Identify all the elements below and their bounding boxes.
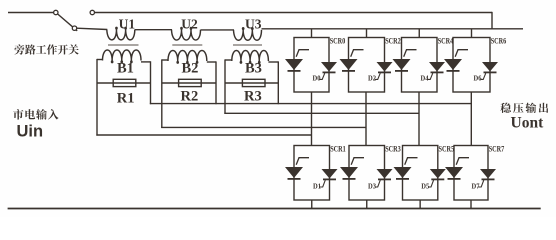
thyristor D7 device (480, 169, 496, 179)
module box SCR5 (403, 146, 438, 201)
svg-text:U1: U1 (119, 16, 136, 31)
thyristor SCR3 (340, 167, 358, 178)
wire: column 1 link (365, 92, 367, 146)
wire: B3 right lead down (277, 61, 279, 104)
winding B3 block (225, 59, 232, 61)
inductor B2 winding (168, 51, 207, 64)
svg-text:D4: D4 (421, 75, 429, 83)
switch pole terminal (54, 10, 58, 14)
wire: bottom stub SCR3 (366, 200, 368, 209)
wire: bus C (B2 left to col1) (161, 126, 366, 128)
svg-text:B1: B1 (117, 60, 134, 76)
resistor R1 (113, 79, 136, 86)
core bar T3 (233, 44, 262, 46)
thyristor SCR4 (393, 59, 411, 70)
thyristor D1 device (322, 169, 338, 179)
module box SCR1 (294, 146, 330, 201)
svg-text:D5: D5 (421, 182, 429, 190)
wire: R3 branch (225, 82, 278, 84)
wire: B1 right lead down (150, 61, 152, 104)
inductor B1 winding (103, 50, 142, 63)
wire: top stub SCR0 (311, 29, 313, 38)
wire: top stub SCR2 (366, 29, 368, 38)
wire: bottom stub SCR7 (470, 200, 472, 209)
core bar T1 (108, 44, 139, 46)
svg-text:D7: D7 (472, 182, 480, 190)
svg-text:R3: R3 (244, 89, 262, 105)
svg-text:U2: U2 (181, 16, 198, 31)
inductor B3 winding (232, 51, 269, 64)
thyristor SCR7 (445, 167, 463, 178)
thyristor SCR2 (340, 59, 358, 70)
wire: bus B (B3 left to col2) (224, 112, 419, 114)
module box SCR6 (453, 38, 490, 93)
wire: bus E (B1 left to col0) (96, 134, 311, 136)
wire: B1 left lead down (96, 59, 98, 136)
inductor U1 winding (107, 27, 135, 40)
wire: switch to U1 (77, 28, 108, 29)
wire: bypass drop to output bus (491, 12, 493, 29)
core bar T2 (172, 44, 202, 46)
module box SCR4 (402, 38, 438, 93)
module box SCR3 (349, 146, 385, 201)
module box SCR7 (454, 146, 488, 201)
svg-text:D0: D0 (313, 75, 321, 83)
svg-text:D3: D3 (368, 182, 376, 190)
svg-text:D6: D6 (474, 75, 482, 83)
inductor U3 winding (234, 28, 262, 41)
thyristor D0 device (321, 62, 337, 72)
wire: U1 to U2 (135, 29, 172, 31)
wire: R1 branch (97, 82, 151, 84)
thyristor SCR0 (285, 59, 303, 70)
thyristor D3 device (377, 169, 393, 179)
svg-text:SCR3: SCR3 (385, 145, 401, 154)
winding B2 block (162, 59, 168, 61)
inductor U2 winding (172, 28, 201, 41)
wire: U2 to U3 (201, 29, 235, 31)
wire: B2 right lead down (215, 61, 217, 104)
svg-text:R2: R2 (181, 89, 199, 105)
wire: bottom stub SCR1 (311, 200, 313, 209)
module box SCR0 (294, 38, 329, 93)
thyristor D2 device (377, 62, 393, 72)
wire: R2 branch (162, 82, 216, 84)
wire: B3 left lead down (224, 59, 226, 114)
switch blade (58, 14, 78, 31)
wire: top stub SCR6 (471, 29, 473, 38)
thyristor D4 device (429, 62, 445, 72)
wire: output top bus (262, 28, 524, 30)
svg-text:SCR1: SCR1 (330, 145, 346, 154)
wire: common bottom rail (8, 208, 541, 210)
resistor R2 (179, 79, 202, 86)
wire: column 2 link (418, 92, 420, 146)
svg-text:U3: U3 (245, 16, 262, 31)
thyristor SCR6 (444, 59, 462, 70)
wire: bypass line (95, 12, 493, 14)
wire: bottom stub SCR5 (419, 200, 421, 209)
svg-text:R1: R1 (117, 91, 135, 107)
svg-text:Uin: Uin (17, 123, 44, 141)
thyristor SCR5 (394, 167, 412, 178)
wire: top stub SCR4 (418, 29, 420, 38)
wire: input top lead (8, 12, 54, 14)
label: mains input (13, 109, 24, 120)
svg-text:SCR7: SCR7 (489, 145, 505, 154)
wire: column 0 link (311, 92, 313, 146)
thyristor SCR1 (285, 167, 303, 178)
svg-text:SCR5: SCR5 (439, 145, 455, 154)
svg-text:SCR2: SCR2 (385, 37, 401, 46)
module box SCR2 (349, 38, 385, 93)
label: regulated output (500, 103, 510, 113)
wire: B2 left lead down (161, 59, 163, 128)
wire: bus A (B-right commons to col3) (150, 103, 471, 105)
svg-text:SCR4: SCR4 (438, 37, 454, 46)
switch throw-1 terminal (72, 26, 76, 30)
svg-text:B2: B2 (182, 60, 199, 76)
svg-text:D1: D1 (313, 182, 321, 190)
svg-text:SCR0: SCR0 (330, 37, 346, 46)
wire: column 3 link (470, 92, 472, 146)
svg-text:Uont: Uont (511, 114, 545, 131)
svg-text:B3: B3 (245, 60, 262, 76)
thyristor D6 device (482, 62, 498, 72)
svg-text:D2: D2 (368, 75, 376, 83)
resistor R3 (242, 79, 265, 86)
winding B1 block (97, 59, 103, 61)
thyristor D5 device (430, 169, 446, 179)
svg-text:SCR6: SCR6 (491, 37, 507, 46)
label: bypass work switch (14, 44, 24, 54)
switch throw-2 terminal (bypass) (90, 10, 94, 14)
